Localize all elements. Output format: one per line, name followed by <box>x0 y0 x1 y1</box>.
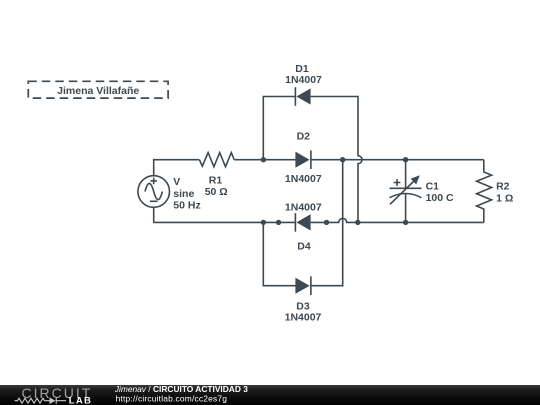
footer logo resistor-diode glyph <box>15 397 67 404</box>
svg-text:http://circuitlab.com/cc2es7g: http://circuitlab.com/cc2es7g <box>116 394 228 404</box>
voltage source V1 <box>138 176 170 208</box>
wire D2 to R2 (top rail) <box>311 159 484 161</box>
svg-text:Jimenav / CIRCUITO ACTIVIDAD 3: Jimenav / CIRCUITO ACTIVIDAD 3 <box>114 384 248 394</box>
name box (dashed) <box>28 81 168 98</box>
junction dot bottom rail at D1 vertical <box>355 220 360 225</box>
svg-text:R2: R2 <box>496 180 510 192</box>
junction dot bottom rail at D4 anode <box>276 220 281 225</box>
svg-text:C1: C1 <box>426 180 440 192</box>
svg-text:sine: sine <box>173 188 194 200</box>
diode D1 <box>295 87 310 106</box>
voltage source labels <box>173 176 200 211</box>
svg-text:1 Ω: 1 Ω <box>496 193 513 205</box>
wire source bottom to D4 <box>154 207 296 222</box>
svg-text:50 Hz: 50 Hz <box>173 200 200 212</box>
R2 labels <box>496 180 513 204</box>
svg-text:100 C: 100 C <box>426 192 454 204</box>
R1 labels <box>205 175 228 199</box>
junction dot bottom rail at C1 <box>403 220 408 225</box>
resistor R1 <box>199 153 234 167</box>
svg-text:1N4007: 1N4007 <box>285 74 322 86</box>
junction dot bottom rail at left vertical <box>261 220 266 225</box>
D2 labels <box>285 131 322 186</box>
svg-text:1N4007: 1N4007 <box>285 173 322 185</box>
junction dot top rail at left vertical <box>261 157 266 162</box>
svg-text:LAB: LAB <box>69 396 92 405</box>
resistor R2 <box>477 160 492 223</box>
capacitor C1 <box>390 160 422 223</box>
svg-text:1N4007: 1N4007 <box>285 202 322 214</box>
junction dot bottom rail at D4 cathode <box>324 220 329 225</box>
wire D4 to R2 with hop over vertical (bottom rail) <box>311 218 484 222</box>
svg-text:D4: D4 <box>297 241 311 253</box>
D1 labels <box>285 63 322 86</box>
svg-text:1N4007: 1N4007 <box>285 312 322 324</box>
wire rail A left + vertical down to top rail <box>263 97 296 160</box>
svg-text:R1: R1 <box>209 175 223 187</box>
svg-text:50 Ω: 50 Ω <box>205 186 228 198</box>
wire R1 to D2 <box>234 159 296 161</box>
svg-text:Jimena Villafañe: Jimena Villafañe <box>57 85 139 97</box>
D3 labels <box>285 301 322 324</box>
diode D2 <box>295 150 311 169</box>
wire rail A right + vertical with hop over top rail down to bottom rail <box>311 97 362 223</box>
wire bottom-rail vertical down to D3 <box>263 222 296 285</box>
D4 labels <box>285 202 322 253</box>
svg-text:D2: D2 <box>297 131 311 143</box>
wire D3 right + vertical up to top rail <box>311 160 343 286</box>
diode D4 <box>295 213 310 232</box>
diode D3 <box>295 276 311 295</box>
footer bar <box>0 385 540 405</box>
junction dot top rail at C1 <box>403 157 408 162</box>
junction dot top rail at D3 vertical <box>340 157 345 162</box>
C1 labels <box>426 180 454 204</box>
wire source top to R1 <box>154 160 200 176</box>
svg-text:V: V <box>173 176 180 188</box>
